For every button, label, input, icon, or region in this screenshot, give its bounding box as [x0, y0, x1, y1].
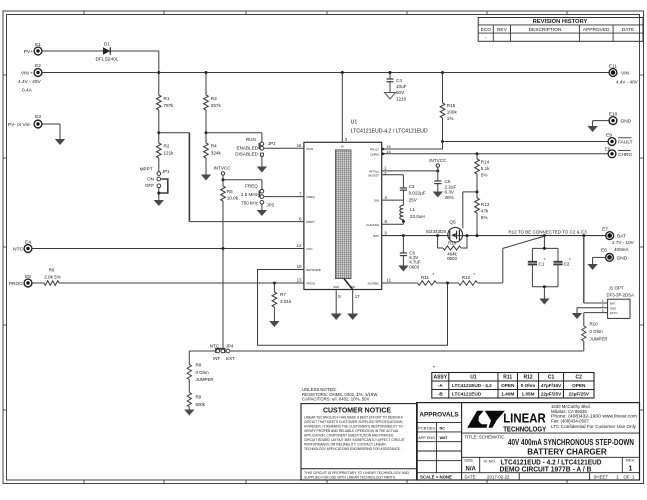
svg-text:22µF/25V: 22µF/25V: [569, 392, 590, 397]
svg-text:R1: R1: [164, 96, 170, 101]
svg-text:1210: 1210: [396, 96, 407, 101]
svg-text:R10: R10: [590, 321, 599, 326]
svg-text:E7: E7: [602, 227, 608, 233]
svg-text:20%: 20%: [445, 195, 454, 200]
svg-text:40V 400mA SYNCHRONOUS STEP-DOW: 40V 400mA SYNCHRONOUS STEP-DOWN: [508, 438, 634, 447]
svg-text:EXT: EXT: [226, 356, 235, 361]
svg-text:GND: GND: [333, 285, 339, 289]
svg-text:LTC4121EUD: LTC4121EUD: [452, 392, 482, 397]
svg-text:JP4: JP4: [226, 344, 234, 349]
svg-text:INTVCC: INTVCC: [429, 158, 447, 163]
svg-text:10uF: 10uF: [396, 84, 407, 89]
svg-text:GND: GND: [610, 306, 616, 310]
svg-text:RUN: RUN: [246, 137, 256, 142]
svg-text:Fax: (408)434-0507: Fax: (408)434-0507: [551, 418, 589, 423]
svg-text:C1: C1: [539, 261, 545, 266]
svg-text:400mA: 400mA: [614, 247, 629, 252]
svg-text:INT: INT: [213, 356, 221, 361]
svg-text:12: 12: [297, 243, 302, 248]
svg-text:U1: U1: [351, 119, 358, 125]
svg-text:6.3V: 6.3V: [445, 190, 455, 195]
svg-text:1: 1: [602, 299, 604, 303]
svg-text:LTC4121EUD - 4.2: LTC4121EUD - 4.2: [452, 383, 492, 388]
svg-text:C1: C1: [548, 375, 555, 381]
svg-text:R3: R3: [211, 96, 217, 101]
svg-text:1.5 MHz: 1.5 MHz: [241, 192, 259, 197]
svg-text:JP3: JP3: [267, 202, 275, 207]
svg-text:1%: 1%: [447, 116, 454, 121]
svg-text:SCALE = NONE: SCALE = NONE: [420, 474, 452, 479]
svg-text:IC NO.: IC NO.: [484, 458, 496, 463]
svg-text:SUPPLIED FOR USE WITH LINEAR T: SUPPLIED FOR USE WITH LINEAR TECHNOLOGY …: [304, 474, 396, 479]
svg-text:500k: 500k: [196, 402, 206, 407]
svg-text:11: 11: [387, 278, 392, 283]
svg-text:PV+: PV+: [24, 49, 33, 55]
svg-text:R12: R12: [462, 275, 471, 280]
svg-text:N/A: N/A: [466, 466, 477, 472]
svg-text:APP ENG: APP ENG: [418, 436, 435, 440]
svg-text:LINEAR: LINEAR: [503, 410, 546, 425]
svg-text:PAD: PAD: [350, 285, 356, 289]
svg-text:CHRG: CHRG: [370, 152, 379, 156]
svg-text:SW: SW: [374, 199, 379, 203]
svg-text:NTC: NTC: [210, 344, 220, 349]
svg-text:47µF/16V: 47µF/16V: [541, 383, 562, 388]
svg-text:R16: R16: [448, 240, 457, 245]
svg-text:R15: R15: [447, 103, 456, 108]
svg-text:INTVCC: INTVCC: [213, 165, 231, 170]
svg-text:2.2uF: 2.2uF: [445, 184, 457, 189]
svg-text:0 Ohm: 0 Ohm: [590, 329, 604, 334]
svg-text:121k: 121k: [164, 150, 175, 155]
svg-text:R2: R2: [164, 144, 170, 149]
svg-text:D1: D1: [104, 42, 110, 48]
svg-text:BAT: BAT: [610, 302, 616, 306]
svg-text:PCB DES: PCB DES: [418, 427, 435, 431]
svg-text:DF3-3P-2DSA: DF3-3P-2DSA: [607, 292, 635, 297]
svg-text:R12: R12: [523, 375, 532, 381]
svg-text:CUSTOMER NOTICE: CUSTOMER NOTICE: [323, 406, 391, 415]
svg-text:PROG: PROG: [9, 281, 23, 287]
svg-text:SIZE: SIZE: [464, 458, 473, 463]
svg-text:4.4V - 40V: 4.4V - 40V: [616, 80, 639, 85]
svg-text:0.022µF: 0.022µF: [409, 191, 426, 196]
svg-text:1.05M: 1.05M: [522, 392, 535, 397]
svg-text:CHGSNS: CHGSNS: [366, 223, 379, 227]
svg-text:*: *: [474, 272, 476, 277]
svg-text:Si2343DS: Si2343DS: [426, 229, 447, 234]
svg-text:E4: E4: [25, 240, 31, 246]
svg-text:-A: -A: [438, 383, 444, 388]
svg-text:OFF: OFF: [145, 183, 154, 188]
svg-text:Q5: Q5: [449, 220, 456, 226]
svg-text:787k: 787k: [164, 103, 175, 108]
svg-text:R8: R8: [196, 363, 202, 368]
svg-text:GND: GND: [617, 255, 628, 261]
svg-text:-B: -B: [438, 392, 444, 397]
svg-text:NTC: NTC: [307, 247, 314, 251]
svg-text:LTC4121EUD-4.2 / LTC4121EUD: LTC4121EUD-4.2 / LTC4121EUD: [351, 128, 428, 134]
svg-text:17: 17: [355, 294, 360, 299]
svg-text:L1: L1: [410, 207, 416, 212]
svg-text:*: *: [433, 272, 435, 277]
svg-text:22µF/25V: 22µF/25V: [541, 392, 562, 397]
svg-text:REV: REV: [497, 27, 508, 33]
svg-text:LTC Confidential For Customer: LTC Confidential For Customer Use Only: [551, 424, 637, 429]
svg-text:JP1: JP1: [162, 169, 170, 174]
svg-text:VIN: VIN: [621, 71, 630, 77]
svg-text:JP2: JP2: [268, 141, 276, 146]
svg-text:FAULT: FAULT: [370, 148, 379, 152]
svg-text:C2: C2: [564, 261, 570, 266]
svg-text:REVISION HISTORY: REVISION HISTORY: [533, 19, 588, 25]
svg-text:JUMPER: JUMPER: [196, 377, 214, 382]
svg-text:BOOST: BOOST: [368, 173, 379, 177]
svg-text:10: 10: [297, 264, 302, 269]
svg-text:LTC4121EUD - 4.2 / LTC4121EUD: LTC4121EUD - 4.2 / LTC4121EUD: [501, 459, 602, 466]
svg-text:10.0k: 10.0k: [227, 196, 239, 201]
svg-text:R7: R7: [280, 292, 286, 297]
svg-text:EXTC: EXTC: [610, 311, 617, 315]
svg-text:E6: E6: [601, 247, 607, 253]
svg-text:ASSY: ASSY: [433, 375, 447, 381]
svg-text:NC: NC: [440, 427, 446, 431]
svg-text:RUN: RUN: [307, 147, 314, 151]
svg-text:APPROVALS: APPROVALS: [419, 412, 459, 419]
svg-text:0.4A: 0.4A: [22, 88, 33, 94]
svg-text:REV.: REV.: [626, 458, 635, 463]
svg-text:R11: R11: [503, 375, 512, 381]
svg-text:DFLS240L: DFLS240L: [96, 57, 119, 63]
svg-text:BAT: BAT: [617, 234, 626, 240]
svg-text:3.01k: 3.01k: [280, 299, 292, 304]
svg-text:324k: 324k: [211, 150, 222, 155]
svg-text:267k: 267k: [211, 103, 222, 108]
svg-text:C5: C5: [445, 179, 451, 184]
svg-text:ENABLED: ENABLED: [237, 145, 259, 150]
svg-text:R12 TO BE CONNECTED TO C2 & C3: R12 TO BE CONNECTED TO C2 & C3: [508, 230, 587, 235]
svg-text:1: 1: [629, 466, 633, 473]
svg-text:E2: E2: [35, 63, 41, 69]
svg-text:3: 3: [602, 309, 604, 313]
svg-text:E11: E11: [609, 64, 618, 70]
svg-text:0 Ohm: 0 Ohm: [196, 370, 210, 375]
svg-text:0 Ohm: 0 Ohm: [521, 383, 536, 388]
svg-text:CAPACITORS: uF, 0402, 10%, 50V: CAPACITORS: uF, 0402, 10%, 50V: [302, 397, 370, 402]
svg-text:APPROVED: APPROVED: [583, 27, 610, 33]
svg-text:GND: GND: [621, 119, 632, 125]
svg-text:IN: IN: [341, 145, 344, 149]
svg-text:OPEN: OPEN: [501, 383, 515, 388]
svg-text:2017-02-22: 2017-02-22: [487, 474, 510, 479]
svg-text:WAT: WAT: [440, 436, 449, 440]
svg-text:C3: C3: [409, 184, 415, 189]
svg-text:R11: R11: [421, 275, 430, 280]
svg-text:*: *: [433, 366, 435, 372]
svg-text:ON: ON: [147, 176, 154, 181]
svg-text:E9: E9: [606, 133, 612, 139]
svg-text:OF: OF: [623, 474, 629, 479]
svg-text:R5: R5: [227, 189, 233, 194]
svg-text:R13: R13: [481, 202, 490, 207]
svg-text:NC/FBG: NC/FBG: [368, 282, 380, 286]
svg-text:E5: E5: [25, 274, 31, 280]
svg-text:MPPT: MPPT: [140, 167, 153, 172]
svg-text:BATSNSFB: BATSNSFB: [307, 268, 321, 272]
svg-text:TECHNOLOGY APPLICATIONS ENGINE: TECHNOLOGY APPLICATIONS ENGINEERING FOR …: [304, 446, 401, 451]
svg-text:5.1k: 5.1k: [481, 166, 490, 171]
svg-text:PROG: PROG: [307, 282, 317, 286]
svg-text:R4: R4: [211, 144, 217, 149]
svg-text:E3: E3: [35, 114, 41, 120]
svg-text:C4: C4: [396, 78, 402, 83]
svg-text:R9: R9: [196, 395, 202, 400]
svg-text:33.0uH: 33.0uH: [410, 214, 425, 219]
svg-text:2.0k 5%: 2.0k 5%: [44, 275, 61, 280]
svg-text:2.7V - 10V: 2.7V - 10V: [612, 240, 635, 245]
svg-text:J1 OPT: J1 OPT: [609, 286, 625, 291]
svg-text:1.40M: 1.40M: [501, 392, 514, 397]
svg-text:2: 2: [602, 304, 604, 308]
svg-text:NTC: NTC: [13, 247, 23, 253]
svg-text:TECHNOLOGY: TECHNOLOGY: [503, 424, 546, 433]
svg-text:ECO: ECO: [481, 27, 492, 33]
svg-text:DISABLED: DISABLED: [235, 151, 258, 156]
svg-text:BATTERY CHARGER: BATTERY CHARGER: [527, 447, 607, 456]
svg-text:C2: C2: [576, 375, 583, 381]
svg-text:16: 16: [297, 143, 302, 148]
svg-text:DESCRIPTION: DESCRIPTION: [529, 27, 562, 33]
svg-text:100k: 100k: [447, 110, 458, 115]
svg-text:SHEET: SHEET: [594, 474, 609, 479]
svg-text:E8: E8: [605, 146, 611, 151]
svg-text:50V: 50V: [396, 90, 405, 95]
svg-text:BAT: BAT: [373, 234, 379, 238]
svg-text:750 kHz: 750 kHz: [241, 200, 259, 205]
svg-text:5%: 5%: [481, 173, 488, 178]
svg-text:DATE: DATE: [622, 27, 634, 33]
svg-text:25V: 25V: [409, 197, 418, 202]
svg-text:CHRG: CHRG: [618, 152, 632, 158]
svg-text:OPEN: OPEN: [572, 383, 586, 388]
svg-text:FREQ: FREQ: [307, 195, 316, 199]
svg-text:R6: R6: [49, 268, 55, 273]
svg-text:E10: E10: [609, 112, 618, 118]
svg-text:47k: 47k: [481, 209, 489, 214]
svg-text:4.4V - 40V: 4.4V - 40V: [18, 79, 41, 85]
svg-text:13: 13: [297, 278, 302, 283]
svg-text:0603: 0603: [447, 256, 457, 261]
svg-text:DATE:: DATE:: [465, 474, 477, 479]
svg-text:VIN +: VIN +: [21, 71, 33, 77]
svg-text:R14: R14: [481, 160, 490, 165]
svg-text:E1: E1: [35, 42, 41, 48]
svg-text:0603: 0603: [409, 265, 419, 270]
svg-text:JUMPER: JUMPER: [590, 337, 608, 342]
svg-text:TITLE: SCHEMATIC: TITLE: SCHEMATIC: [465, 434, 505, 439]
svg-text:5%: 5%: [481, 215, 488, 220]
svg-text:PV- or Vin-: PV- or Vin-: [8, 122, 32, 128]
svg-text:FAULT: FAULT: [618, 140, 633, 146]
svg-text:FREQ: FREQ: [245, 184, 258, 189]
svg-text:14: 14: [386, 149, 391, 154]
svg-text:MPPT: MPPT: [307, 220, 316, 224]
svg-text:U1: U1: [470, 375, 477, 381]
